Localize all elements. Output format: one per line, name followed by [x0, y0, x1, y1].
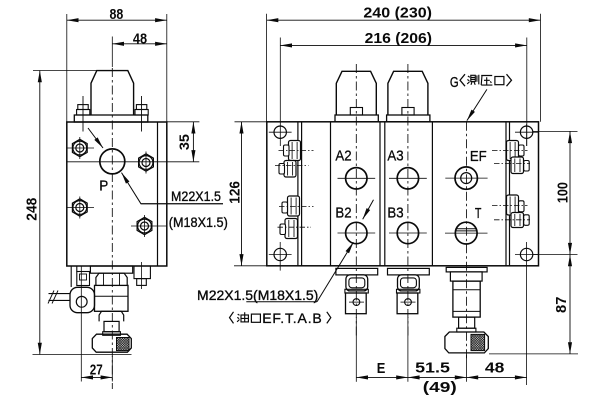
leader from M22X1.5 note to port B2 — [317, 242, 353, 302]
dimension 88 — [66, 14, 68, 122]
svg-text:B2: B2 — [335, 204, 351, 221]
hex bolt bottom-left — [72, 199, 87, 216]
dimension 48 (top) — [111, 37, 113, 68]
left view end-plate inner edge line — [157, 122, 159, 266]
svg-text:E: E — [377, 360, 386, 377]
dimension 126 — [235, 121, 267, 123]
svg-text:M22X1.5(M18X1.5): M22X1.5(M18X1.5) — [197, 287, 318, 303]
tie bolt right 1 — [507, 141, 519, 161]
svg-text:EF.T.A.B: EF.T.A.B — [262, 310, 322, 326]
tie bolt left 4 — [285, 219, 298, 239]
main vertical center line (dash-dot) — [111, 68, 113, 389]
svg-text:48: 48 — [485, 359, 505, 376]
port A2 — [346, 168, 367, 189]
dimension 48 (bottom) — [467, 376, 527, 378]
mounting hole bottom-left — [274, 248, 286, 260]
G leader arrow — [467, 89, 487, 120]
dimension 27 — [80, 307, 82, 382]
bottom assembly: lower hex nut — [99, 311, 124, 321]
spool cap 2 — [388, 71, 428, 115]
svg-text:51.5: 51.5 — [415, 359, 450, 376]
bottom assembly: valve block — [95, 285, 129, 311]
tie bolt left 3 — [288, 196, 300, 216]
mounting hole top-right — [520, 126, 532, 138]
svg-text:35: 35 — [177, 134, 192, 151]
bottom assembly: stem flange — [103, 332, 121, 336]
section 1 center line — [355, 64, 357, 339]
banjo bracket verticals — [70, 266, 72, 287]
left view cap base plate — [74, 115, 148, 122]
left view top cap — [91, 71, 134, 115]
bottom fitting 1 — [336, 268, 378, 275]
leader arrow into P from upper-left — [88, 128, 103, 148]
dimension 100 — [533, 130, 578, 132]
bottom dim extension lines — [355, 317, 357, 382]
port T — [455, 222, 477, 244]
dimension E — [356, 376, 408, 378]
spool cap 1 — [336, 71, 376, 115]
dimension 240 (230) — [266, 14, 268, 122]
svg-text:M22X1.5: M22X1.5 — [171, 188, 221, 204]
cap mounting bolt right — [141, 96, 143, 132]
pipe to left with break marks — [49, 293, 71, 295]
bottom assembly: top flange — [90, 266, 132, 273]
mounting hole bottom-right — [520, 248, 532, 260]
svg-text:100: 100 — [555, 182, 572, 203]
svg-text:27: 27 — [90, 362, 103, 379]
hex bolt top-left — [72, 139, 87, 156]
banjo center line — [80, 266, 82, 307]
banjo lug — [70, 287, 95, 312]
dimension 35 — [167, 121, 200, 123]
tie bolt right 4 — [511, 213, 524, 228]
left view body block — [67, 122, 167, 266]
svg-text:248: 248 — [24, 198, 41, 221]
bottom assembly: upper hex nut — [96, 273, 127, 285]
tie bolt right 3 — [507, 195, 519, 215]
bottom assembly: knurled knob — [92, 334, 131, 352]
svg-text:(49): (49) — [423, 379, 457, 396]
svg-text:B3: B3 — [387, 204, 403, 221]
hex bolt bottom-right — [137, 217, 152, 234]
knob knurl hatch — [117, 338, 130, 351]
tie bolt left 1 — [289, 141, 301, 161]
tie bolt left 2 — [284, 161, 296, 178]
section boundary lines — [297, 122, 299, 266]
right view body — [267, 122, 539, 266]
svg-text:P: P — [99, 178, 108, 195]
svg-text:(M18X1.5): (M18X1.5) — [169, 214, 228, 230]
svg-text:216 (206): 216 (206) — [365, 30, 432, 47]
small tab right of stem — [134, 266, 150, 279]
relief valve under outlet — [446, 267, 487, 272]
svg-text:48: 48 — [133, 30, 147, 47]
section 2 center line — [407, 64, 409, 339]
dimension 248 — [33, 70, 98, 72]
port B3 — [397, 222, 418, 243]
bottom assembly: stem — [104, 321, 119, 331]
svg-text:G: G — [450, 74, 459, 91]
underline of left view M22X1.5 label — [141, 203, 223, 205]
svg-text:126: 126 — [226, 181, 243, 204]
banjo clamp — [77, 272, 90, 286]
banjo circle — [76, 296, 87, 307]
stub arrow into B2 from upper right — [363, 200, 374, 220]
port A3 — [397, 168, 418, 189]
label G (pressure test port) — [450, 74, 512, 91]
P port circle — [100, 149, 125, 174]
P port horizontal center line — [67, 161, 200, 163]
hex bolt top-right — [139, 154, 154, 171]
svg-text:EF: EF — [470, 148, 487, 165]
svg-text:A2: A2 — [335, 148, 351, 165]
dimension 216 (206) — [279, 38, 281, 147]
port EF — [455, 167, 477, 189]
svg-text:87: 87 — [553, 297, 570, 313]
mounting hole top-left — [274, 126, 286, 138]
svg-text:T: T — [475, 205, 482, 222]
cap mounting bolt left — [82, 96, 84, 132]
note CJK: (oil ports EF.T.A.B) — [230, 310, 331, 326]
dimension 51.5 — [408, 376, 467, 378]
tie bolt right 2 — [511, 157, 524, 174]
bottom fitting 2 — [388, 268, 430, 275]
port B2 — [346, 222, 367, 243]
leader from P circle to M22X1.5 label — [122, 173, 224, 204]
outlet section center line — [466, 122, 468, 360]
svg-text:88: 88 — [110, 6, 124, 23]
dimension 87 — [489, 353, 578, 355]
svg-text:A3: A3 — [387, 148, 403, 165]
svg-text:240 (230): 240 (230) — [363, 5, 432, 22]
48-dim extension through bottom-right hole — [526, 242, 528, 385]
